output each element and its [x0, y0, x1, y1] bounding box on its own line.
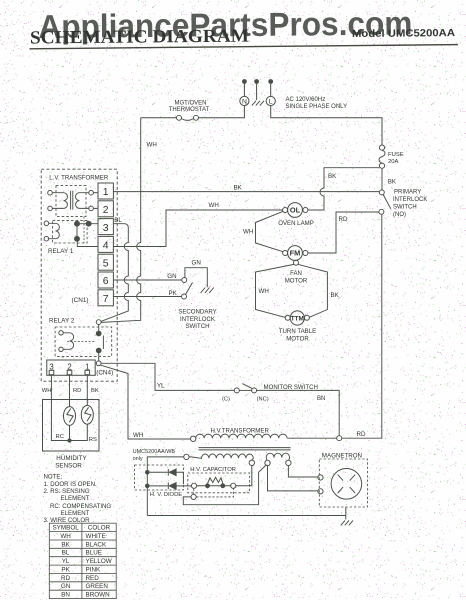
svg-text:RS: RS — [89, 437, 97, 443]
svg-text:(NO): (NO) — [393, 212, 406, 218]
svg-text:SYMBOL: SYMBOL — [52, 525, 79, 532]
svg-text:N: N — [242, 99, 247, 106]
svg-text:GN: GN — [192, 260, 201, 267]
primary interlock switch NO — [379, 190, 391, 214]
svg-text:YL: YL — [62, 558, 70, 565]
svg-text:BK: BK — [328, 173, 337, 180]
svg-text:H. V. DIODE: H. V. DIODE — [150, 492, 182, 498]
wire WH relay2 to HV transformer — [100, 365, 190, 439]
svg-text:RD: RD — [73, 388, 81, 394]
svg-text:AppliancePartsPros.com: AppliancePartsPros.com — [38, 4, 412, 45]
svg-text:1. DOOR IS OPEN.: 1. DOOR IS OPEN. — [44, 481, 97, 488]
svg-text:FM: FM — [290, 249, 301, 258]
svg-text:RELAY 1: RELAY 1 — [48, 248, 74, 255]
wire WH fan motor to turntable motor — [256, 264, 294, 317]
svg-text:MOTOR: MOTOR — [286, 335, 309, 342]
wire transformer to pin2 — [93, 207, 98, 209]
secondary interlock switch — [182, 278, 193, 300]
HV transformer secondary — [189, 454, 253, 460]
svg-text:HUMIDITY: HUMIDITY — [56, 455, 87, 462]
wire BK fuse to oven lamp — [308, 168, 379, 210]
ground AC input — [252, 80, 264, 106]
svg-text:H.V.TRANSFORMER: H.V.TRANSFORMER — [211, 428, 270, 435]
svg-text:2. RS: SENSING: 2. RS: SENSING — [44, 488, 90, 495]
svg-text:4: 4 — [103, 240, 109, 252]
wire BL pin3 down — [101, 224, 128, 322]
svg-text:(CN1): (CN1) — [72, 297, 89, 304]
wire filament to magnetron bottom — [268, 466, 318, 491]
dashed link diode to capacitor — [194, 489, 234, 497]
svg-text:RED: RED — [86, 575, 100, 582]
wire BN monitor to HV transformer — [257, 390, 340, 435]
svg-text:UMC5200AA/WB: UMC5200AA/WB — [133, 449, 176, 455]
svg-text:INTERLOCK: INTERLOCK — [393, 197, 427, 203]
svg-text:YELLOW: YELLOW — [86, 558, 112, 565]
svg-text:PRIMARY: PRIMARY — [394, 190, 421, 196]
svg-text:NOTE;: NOTE; — [44, 474, 63, 481]
svg-text:20A: 20A — [388, 159, 399, 165]
svg-text:WH: WH — [133, 432, 143, 439]
svg-text:7: 7 — [103, 293, 109, 305]
svg-text:GREEN: GREEN — [86, 583, 109, 590]
LV transformer — [56, 186, 86, 217]
svg-text:(NC): (NC) — [257, 396, 269, 402]
magnetron — [319, 459, 367, 507]
wire colour table — [49, 523, 116, 598]
svg-text:FUSE: FUSE — [388, 152, 404, 158]
connector CN1 — [98, 183, 113, 306]
svg-text:AC 120V/60Hz: AC 120V/60Hz — [286, 97, 326, 103]
svg-text:GN: GN — [167, 273, 176, 280]
svg-text:PK: PK — [61, 566, 70, 573]
svg-text:PINK: PINK — [86, 566, 101, 573]
relay 2 — [55, 327, 112, 356]
svg-text:RD: RD — [61, 575, 71, 582]
svg-text:BK: BK — [61, 541, 70, 548]
svg-text:WH: WH — [42, 388, 52, 394]
relay 2 common node — [96, 320, 101, 325]
svg-text:BK: BK — [234, 185, 243, 192]
svg-text:6: 6 — [103, 275, 109, 287]
wire filament to magnetron top — [288, 466, 318, 477]
svg-text:1: 1 — [103, 186, 109, 198]
wires CN4 to humidity sensor — [51, 375, 87, 400]
svg-text:OL: OL — [290, 206, 301, 215]
ground secondary interlock — [201, 288, 214, 293]
wire diode node to filament — [183, 465, 266, 505]
svg-text:THERMOSTAT: THERMOSTAT — [169, 107, 210, 113]
turntable motor TTM — [285, 311, 309, 325]
svg-text:ELEMENT: ELEMENT — [61, 495, 90, 502]
svg-text:BLACK: BLACK — [86, 541, 107, 548]
oven lamp OL — [283, 203, 308, 218]
AC line terminal L — [266, 80, 275, 106]
svg-text:RD: RD — [339, 216, 348, 223]
wire L to fuse — [271, 106, 382, 145]
svg-text:GN: GN — [61, 583, 71, 590]
svg-text:(C): (C) — [222, 396, 230, 402]
fuse 20A — [379, 145, 385, 168]
ground magnetron — [341, 521, 353, 526]
AC line terminal N — [240, 80, 249, 106]
svg-text:SINGLE PHASE ONLY: SINGLE PHASE ONLY — [286, 104, 348, 110]
relay 1 — [53, 221, 88, 243]
svg-text:WH: WH — [259, 288, 269, 295]
relay 2 output node — [96, 361, 101, 366]
svg-text:L: L — [269, 99, 273, 106]
svg-text:RC: COMPENSATING: RC: COMPENSATING — [50, 503, 111, 510]
wire WH oven lamp to fan motor — [256, 211, 284, 251]
bleed resistor — [208, 477, 223, 483]
wire BK pin1 to primary interlock — [113, 191, 379, 193]
svg-text:SECONDARY: SECONDARY — [178, 308, 217, 315]
junction node — [337, 436, 342, 441]
svg-text:BN: BN — [317, 396, 325, 402]
HV diode enclosure — [135, 465, 184, 490]
svg-text:PK: PK — [169, 290, 178, 297]
diode output node — [191, 494, 196, 499]
HV diode D2 — [145, 484, 150, 489]
wire secondary left down — [147, 457, 183, 516]
thermostat MGT/OVEN — [177, 115, 199, 120]
svg-text:BK: BK — [331, 292, 340, 299]
HV transformer primary — [196, 434, 287, 438]
wire RD switch down to HV transformer — [342, 214, 382, 438]
svg-text:MAGNETRON: MAGNETRON — [322, 452, 362, 459]
svg-text:OVEN LAMP: OVEN LAMP — [278, 220, 314, 227]
svg-text:BROWN: BROWN — [86, 592, 111, 599]
wire fuse to switch — [381, 168, 383, 190]
svg-text:BL: BL — [114, 217, 122, 224]
svg-text:2: 2 — [103, 204, 109, 216]
svg-text:BK: BK — [91, 388, 99, 394]
wire N to thermostat — [199, 106, 245, 118]
wire transformer to pin1 — [93, 192, 98, 194]
monitor switch — [234, 384, 256, 393]
wire YL relay2 to monitor switch — [101, 363, 234, 390]
svg-text:BK: BK — [388, 178, 397, 185]
svg-text:H.V. CAPACITOR: H.V. CAPACITOR — [190, 467, 236, 473]
svg-text:FAN: FAN — [290, 270, 302, 277]
svg-text:WH: WH — [147, 142, 157, 149]
wire WH vertical from thermostat — [101, 118, 140, 323]
svg-text:WH: WH — [60, 533, 71, 540]
svg-text:WHITE: WHITE — [86, 533, 106, 540]
wire thermostat left — [141, 117, 177, 119]
wire magnetron to ground — [345, 507, 347, 520]
svg-text:BL: BL — [62, 550, 70, 557]
wire GN pin6 — [113, 279, 181, 281]
svg-text:RC: RC — [56, 434, 65, 440]
svg-text:SWITCH: SWITCH — [185, 323, 209, 330]
HV capacitor — [188, 473, 250, 493]
svg-text:RD: RD — [357, 431, 366, 438]
transformer core — [199, 448, 291, 450]
bottom wire — [147, 515, 345, 517]
control panel dashed enclosure — [41, 169, 117, 381]
svg-text:BLUE: BLUE — [86, 550, 102, 557]
svg-text:only: only — [133, 456, 143, 462]
svg-text:BN: BN — [61, 592, 70, 599]
header underline — [30, 45, 459, 49]
wire WH pin4 to oven lamp — [113, 210, 282, 247]
svg-text:(CN4): (CN4) — [96, 369, 113, 376]
svg-text:INTERLOCK: INTERLOCK — [180, 316, 215, 323]
wire primary to RD node — [287, 437, 336, 439]
fan motor FM — [283, 246, 308, 266]
svg-text:SENSOR: SENSOR — [55, 462, 82, 469]
svg-text:COLOR: COLOR — [88, 525, 111, 532]
svg-text:5: 5 — [103, 257, 109, 269]
svg-text:MGT/OVEN: MGT/OVEN — [174, 100, 206, 106]
svg-text:ELEMENT: ELEMENT — [61, 510, 90, 517]
humidity sensor — [43, 400, 100, 452]
svg-text:3: 3 — [103, 222, 109, 234]
svg-text:WH: WH — [209, 202, 219, 209]
svg-text:SWITCH: SWITCH — [393, 205, 417, 211]
wire BK fan motor to turntable motor — [298, 264, 327, 317]
svg-text:YL: YL — [157, 383, 165, 390]
wire RD switch to fan motor — [308, 212, 379, 253]
svg-text:MOTOR: MOTOR — [285, 277, 308, 284]
svg-text:L.V. TRANSFORMER: L.V. TRANSFORMER — [49, 175, 109, 182]
connector CN4 — [47, 360, 95, 375]
wire GN to ground — [185, 268, 207, 288]
svg-text:TURN TABLE: TURN TABLE — [279, 328, 316, 335]
svg-text:RELAY 2: RELAY 2 — [49, 318, 75, 325]
HV diode D1 — [145, 470, 150, 475]
HV transformer filament winding — [266, 453, 289, 460]
wire PK pin7 — [113, 296, 181, 298]
svg-text:WH: WH — [243, 229, 253, 236]
svg-text:TTM: TTM — [291, 316, 304, 323]
